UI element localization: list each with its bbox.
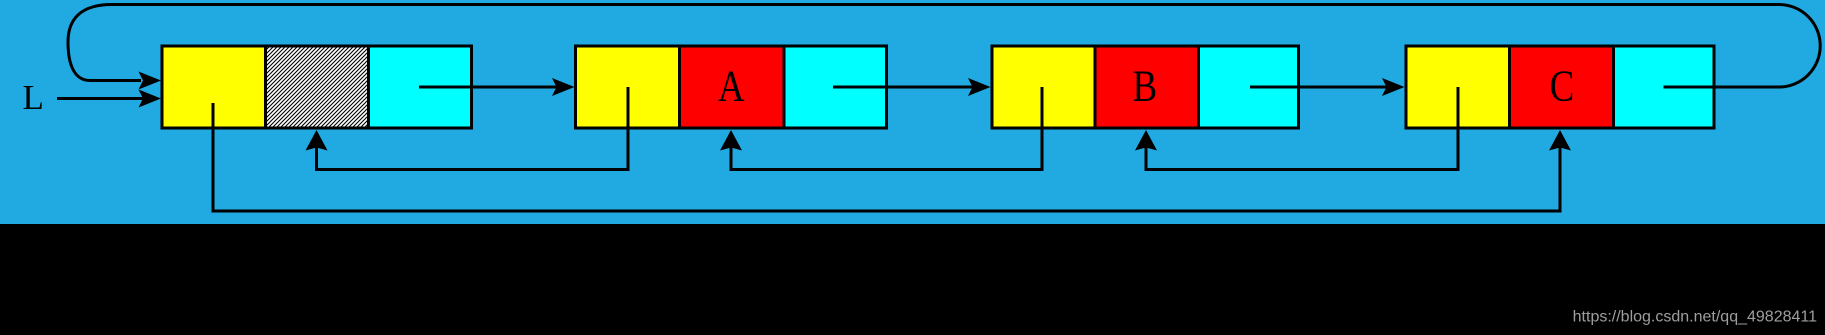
svg-text:A: A (718, 61, 745, 110)
svg-text:https://blog.csdn.net/qq_49828: https://blog.csdn.net/qq_49828411 (1573, 309, 1817, 326)
svg-text:B: B (1132, 61, 1157, 110)
svg-text:C: C (1550, 61, 1575, 110)
svg-text:L: L (23, 78, 44, 117)
